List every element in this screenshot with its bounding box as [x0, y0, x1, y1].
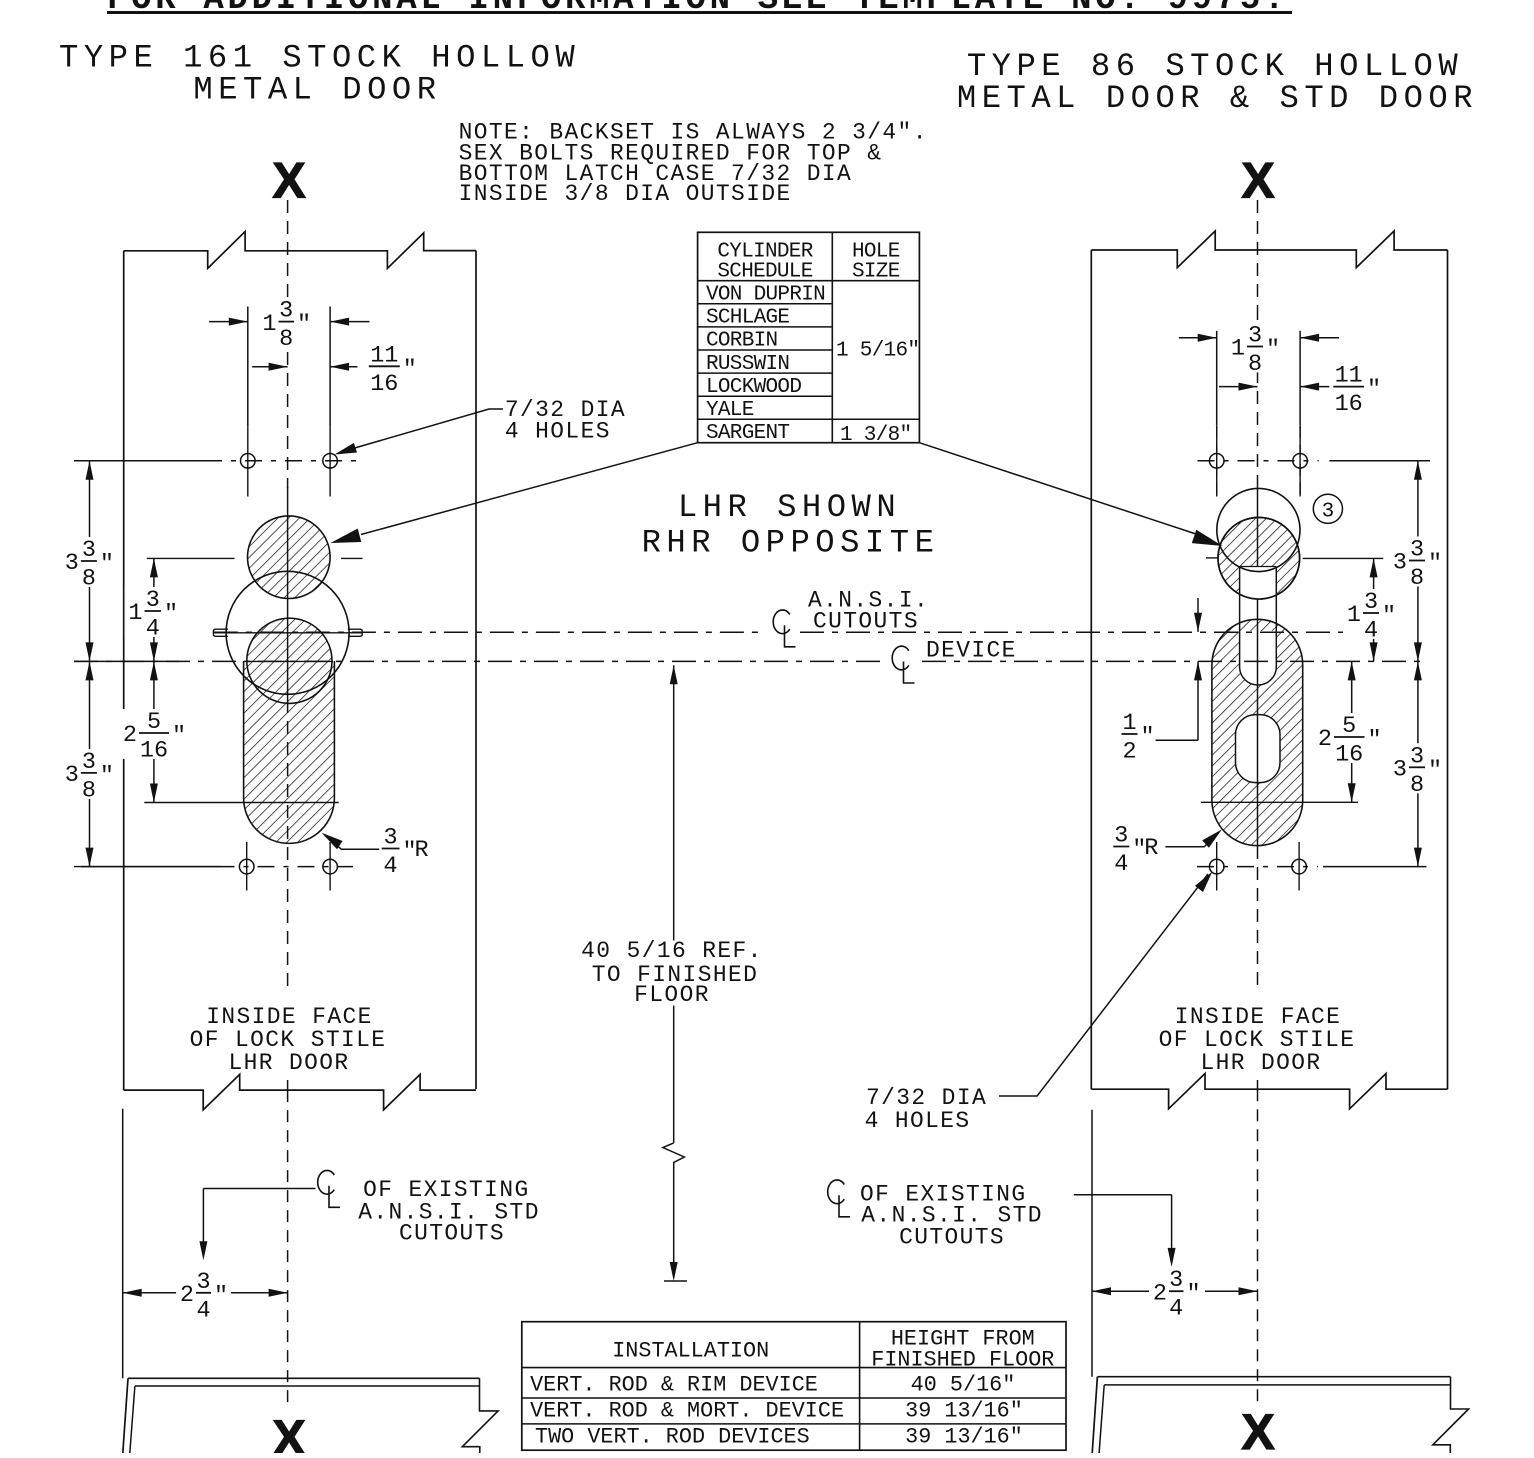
svg-text:3: 3	[1322, 501, 1335, 524]
svg-text:8: 8	[1248, 351, 1262, 378]
svg-text:8: 8	[82, 777, 96, 804]
svg-text:3: 3	[196, 1269, 210, 1296]
svg-text:": "	[214, 1283, 228, 1310]
svg-text:FINISHED FLOOR: FINISHED FLOOR	[871, 1348, 1054, 1373]
svg-text:": "	[297, 312, 311, 339]
svg-text:40 5/16": 40 5/16"	[911, 1373, 1016, 1398]
svg-text:LHR DOOR: LHR DOOR	[1200, 1050, 1321, 1076]
svg-text:3: 3	[82, 537, 96, 564]
svg-text:CUTOUTS: CUTOUTS	[813, 609, 919, 635]
svg-text:": "	[1367, 377, 1381, 404]
svg-text:": "	[1187, 1281, 1201, 1308]
svg-text:VERT. ROD & RIM DEVICE: VERT. ROD & RIM DEVICE	[530, 1373, 818, 1398]
svg-text:INSIDE 3/8 DIA OUTSIDE: INSIDE 3/8 DIA OUTSIDE	[459, 181, 792, 207]
svg-text:CUTOUTS: CUTOUTS	[399, 1221, 505, 1247]
svg-text:3: 3	[1410, 537, 1424, 564]
svg-text:INSTALLATION: INSTALLATION	[612, 1339, 769, 1364]
svg-text:LOCKWOOD: LOCKWOOD	[706, 376, 801, 399]
svg-text:16: 16	[140, 738, 168, 765]
svg-text:16: 16	[1335, 742, 1363, 769]
svg-text:TWO VERT. ROD DEVICES: TWO VERT. ROD DEVICES	[535, 1425, 810, 1450]
svg-text:3: 3	[82, 749, 96, 776]
svg-text:3: 3	[1393, 757, 1407, 784]
svg-text:4 HOLES: 4 HOLES	[505, 419, 611, 445]
svg-text:VERT. ROD & MORT. DEVICE: VERT. ROD & MORT. DEVICE	[530, 1399, 844, 1424]
svg-text:4: 4	[384, 853, 398, 880]
svg-text:": "	[1266, 337, 1280, 364]
svg-text:8: 8	[1410, 565, 1424, 592]
svg-text:2: 2	[1153, 1280, 1167, 1307]
svg-text:4 HOLES: 4 HOLES	[865, 1108, 971, 1134]
svg-text:11: 11	[370, 342, 398, 369]
svg-text:X: X	[1241, 1404, 1274, 1453]
svg-text:": "	[1382, 603, 1396, 630]
svg-text:": "	[100, 551, 114, 578]
svg-text:FLOOR: FLOOR	[634, 982, 710, 1008]
svg-text:8: 8	[279, 326, 293, 353]
svg-text:3: 3	[1114, 823, 1128, 850]
svg-text:1 3/8": 1 3/8"	[840, 424, 911, 447]
svg-text:8: 8	[82, 566, 96, 593]
svg-text:SCHLAGE: SCHLAGE	[706, 307, 789, 330]
svg-text:LHR SHOWN: LHR SHOWN	[678, 489, 901, 526]
svg-text:X: X	[272, 153, 305, 209]
svg-text:CUTOUTS: CUTOUTS	[899, 1225, 1005, 1251]
svg-text:1 5/16": 1 5/16"	[836, 339, 919, 362]
svg-text:R: R	[415, 837, 429, 864]
svg-text:METAL DOOR & STD DOOR: METAL DOOR & STD DOOR	[957, 80, 1478, 117]
svg-text:3: 3	[1410, 743, 1424, 770]
svg-text:2: 2	[123, 722, 137, 749]
svg-text:1: 1	[262, 311, 276, 338]
svg-text:": "	[164, 601, 178, 628]
svg-text:40 5/16 REF.: 40 5/16 REF.	[581, 938, 763, 964]
svg-text:": "	[1428, 551, 1442, 578]
svg-text:YALE: YALE	[706, 399, 754, 422]
svg-text:39 13/16": 39 13/16"	[905, 1399, 1023, 1424]
svg-text:RUSSWIN: RUSSWIN	[706, 353, 789, 376]
svg-text:LHR DOOR: LHR DOOR	[228, 1050, 349, 1076]
svg-text:RHR OPPOSITE: RHR OPPOSITE	[642, 525, 940, 562]
svg-text:39 13/16": 39 13/16"	[905, 1425, 1023, 1450]
svg-text:DEVICE: DEVICE	[926, 638, 1017, 664]
svg-text:3: 3	[65, 762, 79, 789]
svg-text:X: X	[272, 1410, 305, 1453]
svg-text:R: R	[1144, 835, 1158, 862]
svg-text:": "	[100, 763, 114, 790]
svg-text:1: 1	[1122, 710, 1136, 737]
svg-text:": "	[403, 356, 417, 383]
svg-text:5: 5	[1342, 713, 1356, 740]
svg-text:3: 3	[1364, 589, 1378, 616]
svg-text:3: 3	[1248, 323, 1262, 350]
svg-text:1: 1	[1231, 336, 1245, 363]
svg-text:1: 1	[128, 600, 142, 627]
svg-text:4: 4	[1169, 1296, 1183, 1323]
svg-text:3: 3	[65, 550, 79, 577]
svg-text:": "	[1428, 757, 1442, 784]
svg-text:X: X	[1241, 153, 1274, 209]
svg-text:METAL DOOR: METAL DOOR	[193, 72, 441, 109]
svg-text:SCHEDULE: SCHEDULE	[717, 260, 812, 283]
svg-text:4: 4	[196, 1297, 210, 1324]
svg-text:FOR ADDITIONAL INFORMATION SEE: FOR ADDITIONAL INFORMATION SEE TEMPLATE …	[107, 0, 1288, 19]
svg-text:4: 4	[146, 616, 160, 643]
svg-text:16: 16	[1335, 391, 1363, 418]
svg-text:": "	[172, 723, 186, 750]
svg-text:3: 3	[384, 825, 398, 852]
svg-text:SIZE: SIZE	[852, 260, 900, 283]
svg-text:3: 3	[279, 298, 293, 325]
svg-text:2: 2	[1122, 739, 1136, 766]
svg-text:5: 5	[147, 709, 161, 736]
svg-text:11: 11	[1335, 363, 1363, 390]
svg-text:": "	[1141, 724, 1155, 751]
svg-text:SARGENT: SARGENT	[706, 422, 789, 445]
svg-text:4: 4	[1364, 618, 1378, 645]
svg-text:": "	[1368, 727, 1382, 754]
svg-text:CORBIN: CORBIN	[706, 330, 777, 353]
svg-text:1: 1	[1347, 602, 1361, 629]
svg-text:VON DUPRIN: VON DUPRIN	[706, 284, 825, 307]
svg-text:3: 3	[1393, 550, 1407, 577]
svg-text:3: 3	[146, 587, 160, 614]
svg-text:16: 16	[370, 371, 398, 398]
svg-text:3: 3	[1169, 1267, 1183, 1294]
svg-text:8: 8	[1410, 772, 1424, 799]
svg-text:2: 2	[1318, 726, 1332, 753]
svg-text:4: 4	[1114, 851, 1128, 878]
svg-text:2: 2	[180, 1282, 194, 1309]
